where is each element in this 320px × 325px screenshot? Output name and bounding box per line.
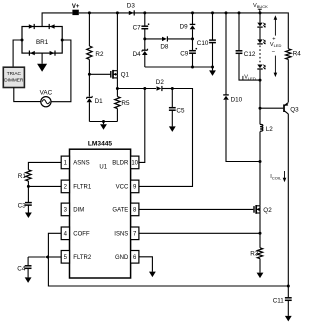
diode D10 bbox=[223, 94, 229, 96]
wire ground stem bbox=[103, 122, 105, 125]
wire R2 to Q1 gate node bbox=[88, 59, 90, 74]
ground arrow below C11 bbox=[285, 316, 292, 322]
wire D9 to D8 node bbox=[192, 29, 194, 39]
wire LED3 to VLED node bbox=[259, 70, 261, 80]
svg-text:BR1: BR1 bbox=[36, 39, 49, 46]
wire top to C12 bbox=[238, 13, 240, 51]
wire C4 corner bbox=[27, 257, 29, 266]
svg-text:C3: C3 bbox=[18, 202, 27, 209]
svg-text:C10: C10 bbox=[197, 40, 209, 47]
bridge diode bottom-right bbox=[50, 51, 55, 55]
svg-text:L2: L2 bbox=[266, 126, 274, 133]
wire D8 node to D4 bbox=[144, 39, 146, 50]
wire C7 to D8 node bbox=[144, 29, 146, 39]
svg-text:ASNS: ASNS bbox=[73, 161, 89, 167]
capacitor C10 bbox=[209, 39, 216, 41]
svg-text:D9: D9 bbox=[180, 24, 189, 31]
resistor R1 bbox=[26, 170, 31, 181]
wire Q3 base bbox=[260, 107, 283, 109]
pin 2 box bbox=[61, 180, 69, 193]
wire V+ to Q1 drain bbox=[116, 13, 118, 71]
TRIAC dimmer box bbox=[3, 67, 24, 87]
svg-text:R4: R4 bbox=[293, 50, 302, 57]
svg-text:VLED: VLED bbox=[244, 75, 256, 81]
wire C4 to ground bbox=[27, 268, 29, 277]
VAC source circle bbox=[41, 97, 51, 107]
C7 polarity plus bbox=[148, 23, 150, 25]
node bridge AC right bbox=[61, 39, 64, 42]
wire D8 left segment bbox=[145, 38, 162, 40]
LED 2 bbox=[257, 39, 262, 43]
svg-text:GATE: GATE bbox=[112, 208, 128, 214]
node D9 top bbox=[191, 11, 194, 14]
wire C12 to VLED node bbox=[239, 53, 260, 80]
svg-text:C11: C11 bbox=[273, 298, 285, 305]
VBUCK net tick bbox=[259, 9, 261, 13]
svg-text:ISNS: ISNS bbox=[114, 232, 128, 238]
svg-text:D1: D1 bbox=[95, 98, 104, 105]
wire top to D9 bbox=[192, 13, 194, 24]
wire C3 to ground bbox=[27, 205, 29, 212]
wire C11 stub bbox=[287, 286, 289, 298]
wire BLDR riser bbox=[139, 89, 145, 163]
wire VLED to Q3 base node bbox=[259, 80, 261, 108]
node C7 top bbox=[143, 11, 146, 14]
zener diode D1 bbox=[87, 96, 93, 98]
wire GATE to Q2 bbox=[139, 208, 253, 210]
wire bridge bottom stem bbox=[41, 53, 43, 64]
svg-text:Q3: Q3 bbox=[290, 106, 299, 113]
wire top to C10 bbox=[212, 13, 214, 40]
node C12 top bbox=[238, 11, 241, 14]
diode D8 bbox=[162, 37, 167, 41]
svg-text:DIMMER: DIMMER bbox=[4, 78, 24, 83]
node ISNS junction bbox=[259, 232, 262, 235]
capacitor C3 bbox=[25, 202, 32, 204]
svg-text:D4: D4 bbox=[133, 51, 142, 58]
svg-text:VAC: VAC bbox=[40, 90, 53, 97]
wire FLTR1 bbox=[28, 185, 61, 187]
svg-text:V+: V+ bbox=[72, 4, 80, 10]
svg-text:FLTR1: FLTR1 bbox=[73, 185, 92, 191]
svg-text:DIM: DIM bbox=[73, 208, 84, 214]
wire C9 to bottom rail bbox=[192, 53, 194, 67]
svg-text:D8: D8 bbox=[160, 43, 169, 50]
bridge diode bottom-left bbox=[30, 51, 35, 55]
wire gate node to Q1 bbox=[89, 73, 110, 75]
wire C10 to bottom rail bbox=[212, 43, 214, 67]
VLED measure arrow up bbox=[274, 18, 276, 36]
bridge diode top-left bbox=[29, 24, 34, 28]
wire ASNS to R1 bbox=[28, 162, 61, 169]
wire LED1 to LED2 bbox=[259, 28, 261, 40]
capacitor C4 bbox=[25, 265, 32, 267]
wire Q3 collector down bbox=[287, 114, 289, 286]
wire D10 to switch node bbox=[226, 100, 260, 162]
wire D4 to bottom rail bbox=[144, 55, 146, 67]
svg-text:Q2: Q2 bbox=[263, 207, 272, 214]
V+ node square bbox=[72, 10, 78, 15]
svg-text:LM3445: LM3445 bbox=[88, 141, 113, 148]
capacitor C5 bbox=[169, 107, 176, 109]
wire C5 to ground bbox=[171, 110, 173, 126]
wire D2 to C5 node bbox=[162, 88, 172, 90]
wire junction to C3 bbox=[27, 186, 29, 202]
pin 9 box bbox=[131, 180, 139, 193]
svg-text:COFF: COFF bbox=[73, 232, 90, 238]
wire GND pin bbox=[139, 257, 153, 272]
wire bottom bus bbox=[48, 257, 288, 286]
node ground stem bbox=[102, 120, 105, 123]
ground arrow below bridge bbox=[37, 64, 47, 72]
wire FLTR2 to C4 bbox=[28, 256, 45, 258]
wire VBUCK to LED1 bbox=[259, 13, 261, 23]
node D8 left bbox=[143, 37, 146, 40]
wire top to D10 bbox=[225, 13, 227, 95]
svg-text:U1: U1 bbox=[99, 165, 107, 171]
wire bridge top-center to V+ rail bbox=[42, 13, 72, 27]
svg-text:VLED: VLED bbox=[270, 42, 282, 48]
svg-text:R1: R1 bbox=[18, 173, 27, 180]
wire ground stem VCC network bbox=[212, 67, 214, 70]
node Q1 gate bbox=[88, 73, 91, 76]
C9 polarity plus bbox=[196, 48, 198, 50]
pin 8 box bbox=[131, 203, 139, 216]
wire C5 node to VCC riser bbox=[139, 89, 193, 187]
wire R5 to ground rail bbox=[116, 109, 118, 122]
node R1 bottom bbox=[27, 185, 30, 188]
svg-text:FLTR2: FLTR2 bbox=[73, 255, 92, 261]
svg-text:ICOIL: ICOIL bbox=[270, 174, 282, 180]
resistor R4 bbox=[286, 49, 291, 60]
svg-text:C5: C5 bbox=[176, 107, 185, 114]
svg-text:D2: D2 bbox=[156, 79, 165, 86]
svg-text:−: − bbox=[271, 49, 275, 55]
svg-text:D10: D10 bbox=[231, 97, 243, 104]
wire TRIAC dimmer to VAC bbox=[14, 88, 41, 102]
LED 3 bbox=[257, 65, 262, 69]
resistor R5 bbox=[115, 97, 120, 109]
capacitor C11 bbox=[285, 297, 292, 299]
svg-text:R2: R2 bbox=[95, 51, 104, 58]
VLED net tick bbox=[242, 76, 244, 80]
ground arrow below C5 bbox=[169, 126, 176, 131]
wire L2 to switch node bbox=[259, 132, 261, 162]
node VBUCK bbox=[259, 11, 262, 14]
diode D2 bbox=[157, 86, 162, 90]
resistor R3 bbox=[257, 248, 262, 259]
transistor Q3 bbox=[283, 104, 285, 112]
wire top to C7 bbox=[144, 13, 146, 26]
node Q1 drain top bbox=[116, 11, 119, 14]
svg-text:C7: C7 bbox=[133, 25, 142, 32]
svg-text:D3: D3 bbox=[127, 3, 136, 10]
node Q1 source junction bbox=[116, 87, 119, 90]
diode D3 bbox=[129, 11, 134, 15]
node R2 top bbox=[88, 11, 91, 14]
ground arrow below R3 bbox=[257, 273, 264, 279]
wire switch node to Q2 drain bbox=[259, 162, 261, 206]
bridge diode top-right bbox=[50, 24, 55, 28]
inductor L2 bbox=[260, 124, 263, 131]
LED 1 bbox=[257, 23, 262, 27]
node BLDR riser top bbox=[143, 87, 146, 90]
svg-text:C4: C4 bbox=[17, 266, 26, 273]
resistor R2 bbox=[87, 46, 92, 59]
wire VBUCK rail corner to R4 bbox=[287, 13, 289, 49]
wire node to L2 bbox=[259, 108, 261, 124]
ground arrow below C10 bbox=[209, 70, 216, 76]
svg-text:R3: R3 bbox=[250, 250, 259, 257]
pin 4 box bbox=[61, 227, 69, 240]
wire D8 right segment bbox=[167, 38, 192, 40]
svg-text:R5: R5 bbox=[121, 100, 130, 107]
IC U1 body bbox=[70, 149, 131, 278]
ICOIL arrow bbox=[284, 171, 286, 179]
wire ISNS to sense node bbox=[139, 232, 260, 234]
zener diode D4 bbox=[142, 49, 148, 51]
ground arrow below C3 bbox=[25, 213, 32, 219]
node C5 top bbox=[171, 87, 174, 90]
wire Q1 source to D2 bbox=[117, 88, 156, 90]
capacitor C7 bbox=[141, 25, 148, 27]
svg-text:C9: C9 bbox=[180, 50, 189, 57]
junction arrow FLTR2 node bbox=[45, 255, 49, 259]
wire R1 to junction bbox=[27, 181, 29, 186]
transistor Q2 bbox=[253, 206, 255, 213]
wire gate node to D1 bbox=[88, 74, 90, 96]
wire ISNS junction to R3 bbox=[259, 233, 261, 248]
VLED measure arrow down bbox=[274, 56, 276, 75]
wire LED string dotted bbox=[259, 46, 261, 64]
wire D1-R5 ground rail bbox=[89, 121, 117, 123]
wire V+ rail bbox=[79, 12, 288, 14]
wire Q1 source down bbox=[116, 78, 118, 89]
node D10 top bbox=[225, 11, 228, 14]
node switch bbox=[259, 160, 262, 163]
wire V+ to R2 bbox=[88, 13, 90, 46]
wire R3 to ground bbox=[259, 259, 261, 273]
node C11 top bbox=[287, 285, 290, 288]
svg-text:TRIAC: TRIAC bbox=[7, 71, 22, 76]
pin 7 box bbox=[131, 227, 139, 240]
diode D9 bbox=[190, 23, 196, 25]
svg-text:VBUCK: VBUCK bbox=[253, 3, 268, 9]
wire D1 to ground rail bbox=[88, 102, 90, 121]
node bridge AC left bbox=[21, 39, 24, 42]
transistor Q1 bbox=[110, 71, 112, 78]
pin 3 box bbox=[61, 203, 69, 216]
svg-text:10: 10 bbox=[131, 161, 138, 167]
wire FLTR2 bbox=[48, 256, 61, 258]
capacitor C9 bbox=[189, 50, 196, 52]
wire C11 to ground bbox=[287, 300, 289, 316]
svg-text:VCC: VCC bbox=[116, 185, 129, 191]
pin 6 box bbox=[131, 251, 139, 264]
bridge rectifier BR1 box bbox=[22, 27, 62, 54]
ground arrow below GND pin bbox=[149, 272, 156, 278]
wire C5 top stub bbox=[171, 89, 173, 108]
wire D8 node to C9 bbox=[192, 39, 194, 51]
node C9 bottom bbox=[191, 66, 194, 69]
wire R4 to Q3 emitter bbox=[287, 59, 289, 102]
svg-text:C12: C12 bbox=[244, 51, 256, 58]
ground arrow below R5 rail bbox=[100, 124, 107, 130]
wire bridge left to TRIAC dimmer bbox=[13, 40, 22, 67]
node VLED bbox=[259, 79, 262, 82]
node D8 right bbox=[191, 37, 194, 40]
svg-text:BLDR: BLDR bbox=[112, 161, 129, 167]
wire VCC network bottom rail bbox=[145, 66, 213, 68]
wire VAC to bridge right bbox=[51, 40, 71, 102]
ground arrow below C4 bbox=[25, 277, 32, 283]
node VCC network ground bbox=[211, 66, 214, 69]
pin 10 box bbox=[131, 156, 139, 169]
wire Q2 source down bbox=[259, 213, 261, 233]
node C10 top bbox=[211, 11, 214, 14]
wire source junction to R5 bbox=[116, 89, 118, 97]
svg-text:GND: GND bbox=[115, 255, 129, 261]
capacitor C12 bbox=[236, 50, 243, 52]
pin 1 box bbox=[61, 156, 69, 169]
svg-text:Q1: Q1 bbox=[121, 72, 130, 79]
pin 5 box bbox=[61, 251, 69, 264]
wire COFF jog bbox=[48, 233, 61, 257]
node Q3 base bbox=[259, 107, 262, 110]
